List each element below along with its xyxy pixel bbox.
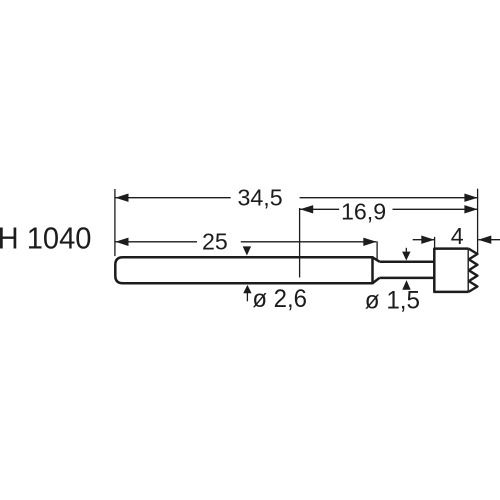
stem of dia 1,5 upper arrow (405, 248, 407, 253)
extension line mid (16,9) (299, 208, 301, 278)
svg-text:ø 1,5: ø 1,5 (365, 287, 420, 314)
arrow dia 2,6 up (243, 285, 251, 293)
svg-text:4: 4 (451, 223, 464, 249)
arrow 25 left (115, 238, 128, 246)
dim line 4 right tail (478, 239, 500, 241)
serrated tip (469, 249, 478, 292)
extension line right (tip) (477, 189, 479, 253)
svg-text:H 1040: H 1040 (0, 222, 91, 256)
extension line 25 right (376, 241, 378, 259)
arrow 4 right (points left) (478, 236, 491, 244)
probe outline (115, 249, 477, 292)
svg-text:25: 25 (202, 229, 228, 255)
taper to plunger (373, 257, 380, 283)
dim line 25 (115, 241, 197, 243)
arrow 25 right (363, 238, 376, 246)
arrow 16,9 left (300, 205, 313, 213)
extension line left (34,5 / 25) (114, 189, 116, 256)
extension line 4 left (434, 237, 436, 248)
stem of dia 2,6 lower arrow (246, 293, 248, 302)
barrel body (115, 257, 372, 283)
arrow 4 left (points right) (421, 236, 434, 244)
dim line 16,9 (300, 208, 339, 210)
head block (434, 249, 468, 292)
arrow 34,5 left (115, 194, 128, 202)
plunger rod (380, 262, 435, 278)
svg-text:34,5: 34,5 (238, 185, 283, 211)
svg-text:16,9: 16,9 (341, 198, 386, 224)
arrow 34,5 right (464, 194, 477, 202)
teeth base line (467, 250, 469, 292)
arrow dia 1,5 down (402, 252, 410, 261)
svg-text:ø 2,6: ø 2,6 (252, 286, 307, 314)
dim line 34,5 (115, 197, 230, 199)
dim line 4 left tail (413, 239, 435, 241)
arrow dia 2,6 down (243, 246, 251, 255)
arrow dia 1,5 up (402, 280, 410, 290)
arrow 16,9 right (464, 205, 477, 213)
